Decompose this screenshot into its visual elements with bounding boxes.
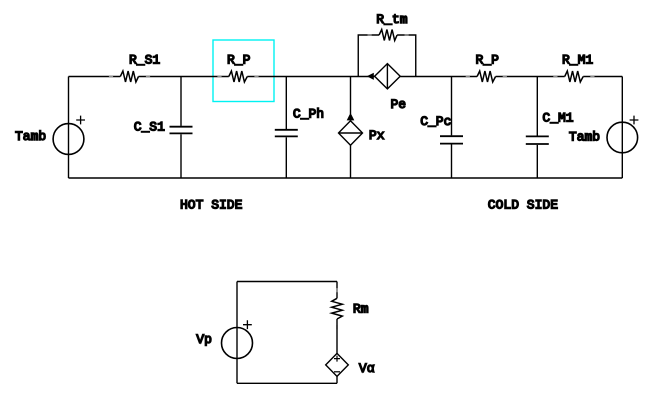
pin markers of resistor R_P (cold side)	[466, 76, 507, 78]
svg-text:Tamb: Tamb	[569, 130, 600, 145]
dependent current source Pe (diamond)	[375, 64, 401, 89]
resistor R_M1	[565, 71, 584, 82]
capacitor C_S1 branch lower wire	[180, 134, 182, 178]
wire top rail Pe right vertex to right R_P	[400, 76, 477, 78]
wire bottom rail	[69, 177, 623, 179]
capacitor C_Ph	[275, 130, 298, 137]
resistor Rm (vertical)	[332, 298, 343, 319]
capacitor C_S1	[170, 127, 193, 134]
wire left vertical branch	[68, 77, 70, 179]
svg-text:COLD SIDE: COLD SIDE	[488, 197, 558, 212]
arrow of current source Px (pointing up)	[347, 113, 355, 121]
pin markers of resistor Rm	[336, 288, 338, 329]
pin markers of resistor R_P (hot side)	[217, 76, 258, 78]
voltage source Vp	[222, 328, 253, 359]
pin markers of resistor R_tm	[368, 34, 409, 36]
wire Px branch to bottom rail	[350, 145, 352, 178]
wire top rail right R_P to R_M1	[496, 76, 565, 78]
svg-text:Vα: Vα	[359, 361, 375, 376]
capacitor C_Ph branch upper wire	[285, 77, 287, 130]
wire right side below Valpha	[336, 376, 338, 383]
horizontal chord of Px diamond	[339, 132, 363, 134]
wire bottom circuit bottom side	[237, 382, 337, 384]
svg-text:HOT SIDE: HOT SIDE	[180, 197, 243, 212]
plus sign of left Tamb source	[76, 116, 85, 125]
vertical chord of Pe diamond	[386, 64, 388, 89]
svg-text:R_S1: R_S1	[129, 53, 160, 68]
svg-text:C_M1: C_M1	[542, 111, 573, 126]
svg-text:Pe: Pe	[391, 97, 407, 112]
svg-text:Vp: Vp	[196, 332, 212, 347]
pin markers of resistor R_M1	[553, 76, 594, 78]
voltage source Tamb (left ambient source)	[53, 124, 84, 155]
svg-text:C_Ph: C_Ph	[293, 107, 324, 122]
plus sign inside Valpha	[334, 356, 340, 362]
svg-text:Tamb: Tamb	[15, 129, 46, 144]
wire bottom circuit left side	[236, 282, 238, 384]
wire R_tm loop left leg	[358, 35, 379, 77]
wire top rail R_P to Pe left vertex	[247, 76, 374, 78]
svg-text:C_Pc: C_Pc	[420, 114, 451, 129]
wire top rail R_M1 to top right corner	[583, 76, 622, 78]
svg-text:C_S1: C_S1	[134, 120, 165, 135]
wire right vertical branch	[621, 77, 623, 179]
minus sign inside Valpha	[334, 371, 340, 373]
arrow of current source Pe (pointing left)	[367, 73, 374, 80]
plus sign of Vp source	[243, 320, 252, 329]
wire right side Rm to Valpha	[336, 319, 338, 353]
wire bottom circuit top side	[237, 281, 337, 283]
capacitor C_S1 branch upper wire	[180, 77, 182, 126]
voltage source Tamb (right ambient source)	[607, 122, 638, 153]
svg-text:R_P: R_P	[476, 53, 500, 68]
capacitor C_Pc	[440, 136, 463, 143]
capacitor C_M1 branch upper wire	[536, 77, 538, 136]
dependent current source Px (diamond)	[339, 121, 363, 146]
resistor R_P (cold side)	[477, 71, 496, 82]
svg-text:R_tm: R_tm	[376, 12, 407, 27]
dependent voltage source Valpha (diamond)	[326, 353, 349, 376]
resistor R_S1	[120, 71, 138, 82]
wire right side above Rm	[336, 282, 338, 299]
capacitor C_Pc branch lower wire	[451, 145, 453, 179]
plus sign of right Tamb source	[630, 116, 639, 125]
capacitor C_Pc branch upper wire	[451, 77, 453, 136]
wire R_tm loop right leg	[397, 35, 416, 77]
capacitor C_M1 branch lower wire	[536, 145, 538, 178]
svg-text:R_M1: R_M1	[562, 53, 593, 68]
resistor R_tm	[379, 30, 397, 41]
cyan highlight box around R_P	[213, 40, 274, 102]
svg-text:R_P: R_P	[227, 53, 251, 68]
svg-text:Px: Px	[369, 128, 385, 143]
wire Px branch from top rail	[350, 77, 352, 115]
wire top rail R_S1 to R_P	[139, 76, 229, 78]
resistor R_P (hot side, highlighted)	[229, 71, 248, 82]
pin markers of resistor R_S1	[109, 76, 150, 78]
capacitor C_Ph branch lower wire	[285, 137, 287, 178]
svg-text:Rm: Rm	[353, 302, 369, 317]
wire top rail segment left corner to R_S1	[69, 76, 121, 78]
capacitor C_M1	[526, 136, 549, 144]
